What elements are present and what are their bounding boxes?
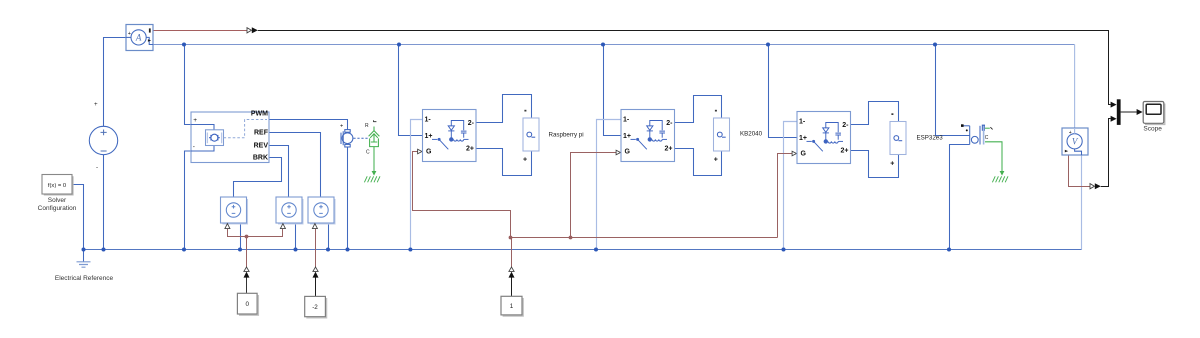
svg-text:-: - [96, 164, 98, 171]
svg-text:PWM: PWM [251, 110, 268, 117]
svg-text:+: + [193, 117, 197, 124]
svg-text:0: 0 [245, 301, 249, 308]
svg-text:A: A [135, 33, 142, 43]
svg-text:Raspberry pi: Raspberry pi [549, 132, 584, 139]
svg-text:R: R [365, 123, 369, 129]
svg-text:1: 1 [510, 303, 514, 310]
svg-text:+: + [1069, 130, 1072, 136]
svg-text:-: - [193, 144, 195, 151]
svg-text:C: C [366, 150, 370, 156]
svg-text:Configuration: Configuration [38, 205, 77, 212]
svg-text:+: + [94, 101, 98, 108]
svg-text:KB2040: KB2040 [740, 131, 763, 138]
svg-text:REV: REV [254, 142, 269, 149]
svg-text:f(x) = 0: f(x) = 0 [48, 183, 66, 189]
svg-text:REF: REF [254, 130, 269, 137]
svg-text:+: + [128, 31, 131, 37]
svg-text:C: C [985, 135, 989, 141]
svg-text:Solver: Solver [48, 197, 67, 204]
svg-text:Scope: Scope [1143, 126, 1162, 133]
svg-text:BRK: BRK [253, 155, 268, 162]
svg-text:+: + [340, 124, 343, 130]
svg-text:Electrical Reference: Electrical Reference [55, 275, 114, 282]
svg-text:+: + [714, 157, 718, 164]
svg-text:ESP32e3: ESP32e3 [917, 135, 944, 142]
svg-text:-2: -2 [312, 304, 318, 311]
svg-text:+: + [523, 157, 527, 164]
svg-text:+: + [890, 160, 894, 167]
